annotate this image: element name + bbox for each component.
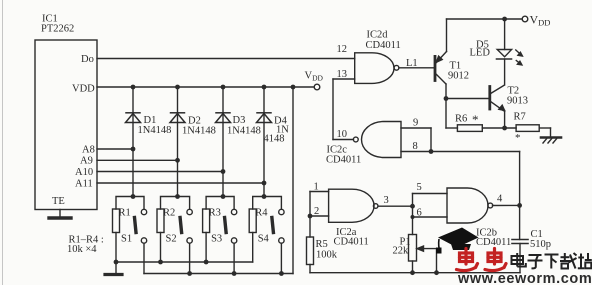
svg-text:R1: R1	[119, 208, 131, 219]
svg-text:S3: S3	[211, 234, 222, 245]
svg-text:10: 10	[337, 129, 348, 140]
svg-text:R3: R3	[209, 208, 221, 219]
svg-text:12: 12	[337, 44, 348, 55]
svg-text:6: 6	[417, 208, 422, 219]
svg-text:100k: 100k	[316, 250, 338, 261]
svg-text:1: 1	[314, 182, 319, 193]
svg-text:4: 4	[497, 194, 503, 205]
svg-text:VDD: VDD	[305, 71, 324, 83]
svg-text:IC2d: IC2d	[367, 30, 389, 41]
svg-text:R4: R4	[255, 208, 268, 219]
svg-text:9013: 9013	[507, 96, 528, 107]
svg-text:22k: 22k	[393, 246, 410, 257]
svg-text:L1: L1	[406, 58, 418, 69]
svg-text:A10: A10	[75, 167, 93, 178]
svg-text:*: *	[515, 132, 521, 144]
svg-text:A11: A11	[75, 179, 93, 190]
svg-text:R5: R5	[316, 239, 328, 250]
svg-text:2: 2	[314, 206, 319, 217]
svg-text:9: 9	[413, 118, 418, 129]
svg-text:5: 5	[417, 182, 422, 193]
svg-text:3: 3	[384, 195, 389, 206]
svg-text:8: 8	[413, 141, 418, 152]
svg-text:VDD: VDD	[72, 84, 95, 95]
svg-text:4148: 4148	[264, 134, 285, 145]
svg-text:R6: R6	[455, 114, 467, 125]
svg-text:S4: S4	[258, 234, 270, 245]
svg-text:*: *	[472, 112, 479, 127]
svg-text:CD4011: CD4011	[366, 40, 401, 51]
svg-text:1N4148: 1N4148	[182, 126, 216, 137]
svg-text:9012: 9012	[448, 71, 469, 82]
svg-text:TE: TE	[52, 196, 65, 207]
svg-text:A8: A8	[82, 145, 95, 156]
svg-text:CD4011: CD4011	[326, 155, 361, 166]
svg-text:R7: R7	[514, 112, 526, 123]
svg-text:R2: R2	[163, 208, 175, 219]
svg-text:510p: 510p	[530, 239, 551, 250]
svg-text:PT2262: PT2262	[41, 24, 74, 35]
svg-text:10k ×4: 10k ×4	[67, 244, 97, 255]
svg-text:www.eeworm.com: www.eeworm.com	[457, 271, 592, 285]
svg-text:1N4148: 1N4148	[138, 125, 172, 136]
svg-text:CD4011: CD4011	[334, 237, 369, 248]
svg-text:1N4148: 1N4148	[227, 126, 261, 137]
svg-text:13: 13	[337, 69, 348, 80]
svg-text:S2: S2	[166, 234, 177, 245]
svg-text:S1: S1	[121, 234, 132, 245]
svg-text:D3: D3	[233, 115, 246, 126]
svg-text:A9: A9	[80, 156, 93, 167]
svg-text:Do: Do	[81, 54, 94, 65]
svg-text:VDD: VDD	[530, 13, 551, 28]
svg-text:LED: LED	[470, 48, 491, 59]
svg-text:CD4011: CD4011	[476, 237, 511, 248]
